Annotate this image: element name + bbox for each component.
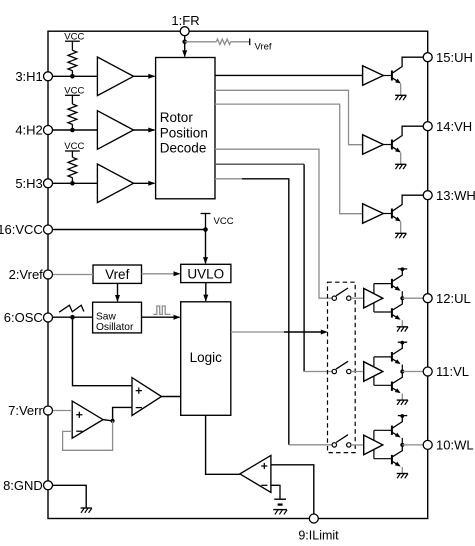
op-amp buffer UL	[364, 288, 383, 308]
wire decode to UH buffer	[215, 74, 363, 76]
wire base drive UL	[373, 284, 375, 312]
pin 13:WH	[423, 191, 432, 200]
wire buffer VH to transistor base	[383, 144, 392, 146]
svg-text:Saw: Saw	[96, 311, 116, 322]
svg-text:10:WL: 10:WL	[436, 438, 474, 453]
battery reference (comparator minus)	[274, 498, 286, 500]
ground (WL emitter)	[397, 473, 408, 475]
wire decode to WH buffer	[215, 104, 363, 214]
wire emitter WH to ground	[400, 222, 402, 233]
switch (UL select)	[332, 296, 336, 300]
op-amp buffer H2	[97, 111, 133, 150]
wire base drive WL	[373, 430, 375, 458]
wire pin OSC to Saw oscillator	[53, 316, 93, 318]
svg-text:12:UL: 12:UL	[436, 291, 471, 306]
block Vref	[93, 265, 142, 283]
svg-text:5:H3: 5:H3	[15, 176, 42, 191]
svg-text:UVLO: UVLO	[187, 266, 224, 281]
pin 14:VH	[423, 122, 432, 131]
svg-text:Osillator: Osillator	[96, 322, 134, 333]
svg-text:8:GND: 8:GND	[3, 478, 43, 493]
resistor H1 pull-up	[68, 50, 77, 70]
block Rotor Position Decode	[156, 58, 215, 199]
pin 3:H1	[44, 72, 53, 81]
transistor Q-WL-bottom	[391, 455, 393, 464]
op-amp PWM comparator	[132, 378, 162, 416]
wire VCC to UVLO with arrow	[205, 230, 207, 264]
op-amp buffer VH	[363, 135, 384, 155]
ground (VL emitter)	[397, 399, 408, 401]
pin 11:VL	[423, 367, 432, 376]
wire comparator minus to reference	[271, 485, 280, 499]
pin 1:FR	[180, 27, 189, 36]
pin 6:OSC	[44, 313, 53, 322]
wire decode to VH buffer	[215, 90, 363, 144]
wire buffer H1 to decode with arrow	[134, 75, 155, 77]
transistor Q-UH	[391, 71, 393, 81]
wire buffer WH to transistor base	[383, 213, 392, 215]
wire buffer H2 to decode with arrow	[134, 129, 155, 131]
svg-text:15:UH: 15:UH	[436, 50, 473, 65]
svg-text:9:ILimit: 9:ILimit	[298, 529, 339, 543]
pin 16:VCC	[44, 225, 53, 234]
switch (WL select)	[332, 443, 336, 447]
op-amp buffer VL	[364, 362, 383, 382]
wire node to pin 10:WL	[402, 444, 423, 446]
transistor Q-VL-top	[391, 352, 393, 361]
wire decode to WL switch	[215, 178, 242, 180]
wire emitter VL to ground	[401, 394, 403, 400]
svg-text:Position: Position	[160, 125, 208, 140]
node FR junction	[182, 40, 187, 45]
IC boundary box	[48, 31, 428, 518]
svg-text:6:OSC: 6:OSC	[4, 310, 43, 325]
node H2 junction	[70, 128, 75, 133]
wire node to pin 12:UL	[402, 297, 423, 299]
wire OSC to PWM comparator	[73, 317, 133, 386]
wire decode to VL switch	[215, 163, 304, 165]
block UVLO	[181, 264, 231, 282]
wire emitter UH to ground	[400, 84, 402, 95]
wire FR to decode with arrow	[184, 36, 186, 57]
svg-text:3:H1: 3:H1	[15, 69, 42, 84]
supply terminal (VL top)	[398, 341, 407, 343]
svg-text:Rotor: Rotor	[160, 110, 194, 125]
svg-text:11:VL: 11:VL	[436, 364, 469, 379]
wire pin Vref to Vref block	[53, 274, 93, 276]
ground (GND pin)	[81, 507, 92, 509]
node H3 junction	[70, 181, 75, 186]
wire pin Verr to error amp	[53, 410, 72, 412]
resistor H3 pull-up	[68, 157, 77, 177]
wire buffer H3 to decode with arrow	[134, 182, 155, 184]
svg-text:7:Verr: 7:Verr	[8, 403, 43, 418]
saw waveform symbol	[59, 305, 84, 312]
svg-text:Logic: Logic	[190, 350, 223, 365]
op-amp buffer H1	[97, 57, 133, 96]
transistor Q-VH	[391, 140, 393, 150]
wire comparator to Logic	[206, 415, 240, 474]
wire pin GND to ground	[53, 485, 86, 507]
node OSC junction	[70, 315, 75, 320]
pin 2:Vref	[44, 270, 53, 279]
pin 12:UL	[423, 294, 432, 303]
wire error amp to PWM comparator	[113, 407, 132, 421]
supply terminal (WL top)	[398, 415, 407, 417]
transistor Q-UL-top	[391, 279, 393, 288]
svg-text:16:VCC: 16:VCC	[0, 222, 43, 237]
wire decode to UL switch	[215, 149, 332, 298]
wire Vref to UVLO with arrow	[142, 273, 180, 275]
wire switch to buffer WL	[351, 444, 364, 446]
node VCC junction	[203, 227, 208, 232]
wire Logic to switch box with arrow	[231, 331, 284, 333]
pin 5:H3	[44, 179, 53, 188]
wire ILimit pin to comparator plus	[271, 465, 314, 514]
svg-text:Vref: Vref	[255, 42, 272, 53]
svg-text:14:VH: 14:VH	[436, 119, 472, 134]
node error amp output	[111, 419, 115, 423]
transistor Q-VL-bottom	[391, 382, 393, 391]
wire switch to buffer VL	[351, 371, 364, 373]
pulse waveform symbol	[153, 306, 170, 314]
op-amp buffer H3	[97, 164, 133, 203]
wire Vref to Saw oscillator with arrow	[117, 283, 119, 301]
op-amp error amp U-err	[72, 401, 103, 438]
dashed switch box	[328, 282, 356, 452]
op-amp buffer WL	[364, 435, 383, 455]
supply terminal (UL top)	[398, 268, 407, 270]
wire Saw oscillator to Logic with arrow	[142, 316, 180, 318]
ground (UH emitter)	[395, 94, 406, 96]
wire emitter WL to ground	[401, 467, 403, 473]
switch (VL select)	[332, 369, 336, 373]
node Vref terminal tick	[249, 39, 251, 46]
pin 10:WL	[423, 440, 432, 449]
wire emitter VH to ground	[400, 153, 402, 164]
wire emitter UL to ground	[401, 320, 403, 326]
wire error amp output	[103, 420, 113, 421]
pin 15:UH	[423, 53, 432, 62]
op-amp buffer UH	[363, 66, 384, 86]
wire switch to buffer UL	[351, 297, 364, 299]
transistor Q-WH	[391, 209, 393, 219]
transistor Q-WL-top	[391, 426, 393, 435]
pin 9:ILimit	[309, 514, 318, 523]
ground (comparator minus)	[273, 509, 287, 511]
svg-text:4:H2: 4:H2	[15, 123, 42, 138]
VCC symbol (UVLO)	[205, 214, 207, 230]
wire error amp feedback loop	[63, 421, 113, 450]
wire FR branch to Vref	[185, 41, 217, 43]
wire buffer UH to transistor base	[383, 75, 392, 77]
svg-text:Decode: Decode	[160, 141, 207, 156]
svg-text:13:WH: 13:WH	[436, 188, 475, 203]
block Logic	[181, 302, 231, 416]
pin 8:GND	[44, 481, 53, 490]
ground (WH emitter)	[395, 232, 406, 234]
op-amp buffer WH	[363, 204, 384, 224]
wire node to pin 11:VL	[402, 371, 423, 373]
node H1 junction	[70, 74, 75, 79]
pin 7:Verr	[44, 406, 53, 415]
wire PWM comparator to Logic	[162, 396, 181, 398]
ground (VH emitter)	[395, 163, 406, 165]
wire UVLO to Logic with arrow	[205, 283, 207, 301]
wire base drive VL	[373, 357, 375, 385]
svg-text:1:FR: 1:FR	[171, 13, 199, 28]
pin 4:H2	[44, 126, 53, 135]
wire pin H3 to buffer	[53, 182, 98, 184]
svg-text:Vref: Vref	[105, 267, 130, 282]
op-amp current limit comparator	[240, 455, 271, 492]
svg-text:2:Vref: 2:Vref	[9, 267, 44, 282]
node VL output	[400, 370, 404, 374]
ground (UL emitter)	[397, 326, 408, 328]
block Saw Osillator	[93, 302, 142, 333]
wire pin H1 to buffer	[53, 75, 98, 77]
resistor FR-Vref	[216, 39, 230, 44]
resistor H2 pull-up	[68, 104, 77, 124]
wire pin VCC to UVLO node	[53, 229, 206, 231]
wire pin H2 to buffer	[53, 129, 98, 131]
transistor Q-UL-bottom	[391, 308, 393, 317]
node UL output	[400, 296, 404, 300]
svg-text:VCC: VCC	[214, 216, 234, 227]
node WL output	[400, 443, 404, 447]
